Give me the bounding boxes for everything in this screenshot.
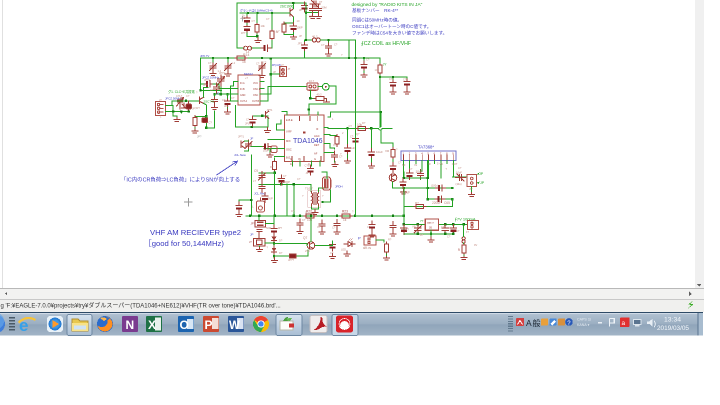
wire: Q7 links [311,216,333,246]
Acrobat icon [310,316,327,333]
wire: mixer out column [235,105,268,127]
mail soft button (active) [276,315,302,336]
coil L2 shielded [256,198,264,212]
LED D2 [344,239,355,247]
node: junction JY [379,76,381,78]
CAPS/KANA indicator [577,318,592,328]
capacitor C43 polarized [404,78,410,88]
ceramic filter FL1 [307,83,318,90]
svg-text:C?: C? [317,225,321,229]
svg-text:1k: 1k [343,218,347,222]
svg-text:2SC1906: 2SC1906 [280,5,294,9]
node: junction mid rail [354,57,356,59]
Excel icon [146,316,162,332]
svg-text:MIX: MIX [286,139,291,143]
svg-text:JP: JP [250,233,253,237]
svg-text:A: A [526,318,532,328]
wire: Q1 emitter column [204,103,207,116]
firefox icon [97,316,113,332]
capacitor C66 trimmer [456,174,466,181]
trimmer L3 quad coil [259,172,266,182]
resistor R13b [270,29,274,41]
svg-text:C?: C? [458,166,462,170]
component value micro labels [160,6,477,256]
wire: rail to JY column [364,58,380,62]
svg-text:O: O [180,318,189,332]
ground (quad) [267,152,273,157]
node: emitter bottom junction [205,127,207,129]
resistor R22 inline rail [304,214,316,218]
wire: ground row [166,105,189,116]
svg-text:10uF: 10uF [416,170,423,174]
capacitor C53b [315,5,321,15]
IME toolbar icons [541,319,548,326]
svg-text:C?: C? [208,61,212,65]
ground (C60) [368,163,374,168]
wire: U3 pin stubs down [404,161,454,179]
svg-text:グ1. CLC+E共振電: グ1. CLC+E共振電 [168,89,195,94]
node: junction top pin [308,108,310,110]
wire: L7 right drop [323,190,331,202]
wire: JY branch right [380,76,406,78]
svg-text:IN: IN [415,163,418,167]
capacitor C5 [213,83,219,93]
svg-text:R?: R? [415,201,419,205]
ground (C58) [225,71,231,76]
crystal X3 overtone trimmer [310,1,320,8]
svg-text:C?: C? [409,167,413,171]
connector J1 antenna (3 pin) [156,101,166,115]
svg-text:C?: C? [222,98,226,102]
explorer folder button (active) [67,315,92,336]
svg-text:50M: 50M [322,6,327,10]
ground (regulator) [428,237,434,242]
node: xtal branch junction [305,11,307,13]
svg-text:10uF: 10uF [376,150,383,154]
resistor R31 volume [391,147,395,159]
canvas left frame line [2,0,3,288]
svg-text:C?: C? [456,229,460,233]
wire: out to speaker row [452,176,467,178]
svg-text:C?: C? [209,121,213,125]
U2 pin labels [240,82,261,103]
node: left drop junction [199,89,201,91]
svg-text:JP?1: JP?1 [267,108,273,112]
node: junction volume [370,127,372,129]
wire: quad row lower [259,184,311,215]
capacitor C50 polarized [244,15,250,25]
node: Q7 rail junction [310,215,312,217]
wire: U2 right pin stubs [260,82,264,101]
wire: quad row upper [259,173,275,216]
svg-text:OSC1はオーバートーン時のC値です。: OSC1はオーバートーン時のC値です。 [352,23,431,30]
svg-text:a: a [622,320,626,327]
capacitor C54 polarized [290,23,296,33]
wire: X2 link [265,242,274,244]
svg-text:C?: C? [389,77,393,81]
svg-text:JP?1: JP?1 [204,78,210,82]
svg-text:X?: X? [319,0,323,4]
connector J4 power [364,236,376,245]
wire: J2 stub [271,73,280,75]
ground (front-end) [174,117,180,122]
svg-text:C?: C? [321,43,325,47]
capacitor C2 box [202,118,208,123]
capacitor C22 [211,96,217,106]
svg-text:100P: 100P [263,149,269,153]
status bar background [0,299,704,312]
trimmer C59 [259,62,266,72]
wire: varactor column [273,216,275,258]
svg-text:C?: C? [333,143,337,147]
svg-text:VR: VR [412,225,416,229]
wire: U2 pin1-pin5 bracket [231,82,234,101]
svg-text:W: W [229,320,240,332]
svg-text:KANA ▾: KANA ▾ [577,323,590,327]
svg-text:(10u): (10u) [456,182,462,186]
wire: U1 pin2 volume row [328,127,392,129]
svg-text:C?: C? [398,161,402,165]
coil L2 shielded box [271,146,277,152]
capacitor C21 polarized [204,81,214,87]
svg-text:C?: C? [406,228,410,232]
ground (C73) [334,229,340,234]
svg-text:1.4: 1.4 [218,69,222,73]
svg-text:C?: C? [252,19,256,23]
capacitor C39 polarized [307,165,313,175]
svg-text:C?: C? [334,43,338,47]
svg-text:1uF: 1uF [351,146,356,150]
wire: U1 left pin stubs [264,130,285,157]
ground (Q6) [401,189,407,194]
coil L4 [244,46,252,50]
wire: X1 links [259,216,274,224]
node: row junctions [220,93,222,95]
wire: osc riser column [264,59,271,95]
node: audio junctions [403,177,405,179]
svg-text:2019/03/05: 2019/03/05 [657,325,689,332]
ground (C76) [330,254,336,259]
node: junction C42 [392,76,394,78]
wire: regulator input row [404,223,468,225]
wire: to mixer gnd row [206,111,214,128]
capacitor C53a [309,5,315,15]
svg-text:10uF: 10uF [456,171,462,175]
ground (C75) [390,231,396,236]
capacitor C75 [390,222,396,232]
test point TP1 (green circle) [322,83,329,90]
svg-text:2SC741: 2SC741 [204,99,215,103]
svg-text:C?u?: C?u? [305,164,312,168]
svg-text:G: G [314,157,316,161]
wire: NF row [393,182,453,188]
regulator U4 78L05 [425,219,438,230]
svg-text:10.7: 10.7 [309,79,315,83]
connector J2 [280,67,287,77]
svg-text:IN: IN [298,157,301,161]
svg-text:L4: L4 [246,50,250,54]
wire: T1 secondary drop [286,184,288,216]
svg-text:C?: C? [246,118,250,122]
svg-text:1k: 1k [242,60,246,64]
node: junction buffer row [305,39,307,41]
svg-text:IN.A: IN.A [240,82,245,85]
wire: antenna feed [166,101,177,106]
svg-text:100P: 100P [283,180,290,184]
svg-text:C?: C? [283,174,287,178]
horizontal scrollbar right arrow [689,292,692,297]
ground (C57) [210,71,216,76]
svg-text:TA7368*: TA7368* [418,145,434,150]
svg-text:V.RF: V.RF [286,130,292,134]
wire: pin AGC elbow to R15 [330,135,337,137]
svg-text:LED: LED [341,248,346,252]
wire: U1 bottom pin stubs [292,161,319,166]
trimmer R28 [414,224,421,234]
svg-text:X: X [148,318,156,332]
wire: det coil up [322,172,327,179]
wire: pin DET elbow [330,144,335,150]
transistor Q6 [389,174,397,182]
trimmer C33 quad [245,140,252,150]
svg-text:C?: C? [291,209,295,213]
capacitor C71 [297,219,303,229]
svg-text:R?: R? [388,238,392,242]
svg-text:般: 般 [533,318,541,328]
OneNote icon [122,316,138,332]
svg-text:JP??: JP?? [288,258,294,262]
svg-text:56P: 56P [268,197,273,201]
svg-text:C?: C? [367,225,371,229]
ground (emitter) [291,34,297,39]
svg-text:JP(?): JP(?) [245,122,251,126]
svg-text:JP?: JP? [241,31,246,35]
wire: C58 branch column [347,128,349,145]
wire: switch row [376,240,384,242]
ground (emitter row) [192,128,198,133]
svg-text:C?: C? [302,218,306,222]
wire: oscillator loop bottom [237,47,272,49]
svg-text:P: P [358,236,361,241]
capacitor C77 [236,202,242,212]
svg-text:「IC内のCR負荷⇒LC負荷」によりSNが向上する: 「IC内のCR負荷⇒LC負荷」によりSNが向上する [121,176,240,184]
wire: U1 top pin elbows [282,108,318,115]
node: base row junction [185,100,187,102]
capacitor C61 [390,163,396,173]
avast tray icon [620,318,630,328]
node: ground row junctions [172,110,174,112]
ground (filter row) [324,99,330,104]
capacitor C56b [325,42,331,52]
resistor R21 [378,63,382,75]
svg-text:9V: 9V [474,243,477,247]
svg-text:Q?: Q? [356,132,360,136]
capacitor C76 polarized [329,241,335,251]
svg-text:C?: C? [297,177,301,181]
wire: quad links [245,141,272,152]
svg-text:C?: C? [403,78,407,82]
node: rail junctions [249,215,251,217]
node: mixer out junctions [251,126,253,128]
wire: gnd row y94 [215,93,239,95]
speaker tray icon [647,319,655,327]
ground (C41) [361,72,367,77]
trimmer C57 [210,62,217,72]
svg-text:OUT.A: OUT.A [240,100,247,103]
capacitor C80 polarized [450,224,456,234]
ground (speaker) [469,192,475,197]
op-amp U3 TA7368 box [401,151,456,161]
coil L5 [312,38,320,42]
svg-text:1.4: 1.4 [232,61,236,65]
crystal X1 [255,221,266,227]
ground (C53b) [316,14,322,19]
svg-text:C?: C? [332,226,336,230]
connector BAT [467,221,478,230]
capacitor C23 polarized [224,98,230,108]
svg-text:C?: C? [447,235,451,239]
capacitor C79 [442,224,448,234]
svg-text:R?: R? [420,233,424,237]
wire: oscillator inner rail [240,12,283,14]
node: varactor junctions [273,242,275,244]
wire: rail into regulator column [403,207,405,234]
capacitor C41 polarized [361,61,367,71]
wire: out row [428,198,453,200]
svg-text:AF: AF [314,152,318,156]
U3 pin numbers [403,152,455,156]
capacitor C31 polarized [352,135,358,145]
coil L7 det shielded [323,177,331,190]
transformer T1 [308,191,321,208]
svg-text:D?: D? [279,239,283,243]
U1 pin labels and ticks [286,118,320,161]
svg-text:7?: 7? [420,219,424,223]
Outlook icon [178,316,194,332]
ground (varactor chain) [272,258,278,263]
svg-text:(100u): (100u) [431,184,439,188]
transistor Q5 2SC1906 [290,9,293,17]
action center flag [610,319,615,327]
node: rail junctions [212,57,214,59]
wire: tune row [274,250,308,256]
wire: emitter row [195,116,207,128]
capacitor C74 polarized [369,221,375,231]
resistor R2 [193,116,197,128]
canvas bottom border [0,288,704,289]
svg-text:Q7: Q7 [303,236,307,240]
svg-text:CAPS ◲: CAPS ◲ [577,318,592,322]
svg-text:NE612: NE612 [244,72,254,76]
svg-text:C?L?: C?L? [176,94,183,98]
capacitor C37 polarized [262,193,268,203]
origin cross (module, gray) [240,17,244,22]
svg-text:220uF: 220uF [432,201,441,205]
ground (R11 row) [255,37,261,42]
wire: mixer out to filter [260,87,307,101]
wire: xtal branch [306,3,319,13]
svg-text:IN.B: IN.B [240,88,245,91]
capacitor C72 [319,220,325,230]
svg-text:C?: C? [256,62,260,66]
capacitor C55 polarized [261,45,271,51]
capacitor C73 [334,220,340,230]
pin2 wire start [327,127,329,130]
svg-text:9: 9 [458,248,460,252]
svg-text:JP?: JP? [203,83,208,87]
svg-text:C?: C? [186,94,190,98]
resistor R15 [335,134,339,146]
Word icon [228,316,244,332]
wire: U1 pin1 feed across top [328,112,381,117]
svg-text:C?: C? [441,225,445,229]
svg-text:C?: C? [266,17,270,21]
ground (R25) [461,255,467,260]
op-amp U1 TDA1046 box [285,115,325,162]
svg-text:JP: JP [273,70,276,74]
resistor R16 [273,160,277,172]
ground (C59) [259,73,265,78]
ground (C71) [297,229,303,234]
transistor Q1 rf amp [200,97,204,104]
svg-text:JF: JF [250,137,253,141]
svg-text:JCL.New: JCL.New [234,153,247,157]
capacitor C42 polarized [390,79,396,89]
svg-text:40.2: 40.2 [312,35,318,39]
wire: oscillator frame top [237,3,306,48]
wire: T1 right to det coil [319,182,328,191]
resistor R26 [385,242,389,254]
ground (C74) [369,232,375,237]
svg-text:JP?1: JP?1 [238,135,244,139]
svg-text:OUT: OUT [452,162,458,166]
resistor R32 inline [414,205,426,209]
svg-text:JPDH: JPDH [335,185,343,189]
ground (C43) [404,89,410,94]
capacitor C63 [417,170,423,180]
capacitor C1 box [186,101,192,112]
wire: U2 left pin stubs [215,82,239,101]
svg-text:JP?: JP? [197,135,202,139]
svg-text:［good for 50,144MHz): ［good for 50,144MHz) [144,239,224,248]
svg-text:∮CZ COIL as HF/VHF: ∮CZ COIL as HF/VHF [361,41,411,47]
resistor R5 inline [314,96,326,100]
crystal X2 [254,238,265,246]
PowerPoint icon [203,316,219,332]
label 78L05 [427,221,434,230]
svg-text:C?: C? [210,88,214,92]
U3 pin net labels [402,162,458,167]
svg-text:OUT.B: OUT.B [252,100,259,103]
wire: rail left drop [201,58,222,90]
svg-text:C?: C? [231,96,235,100]
node: junction L5 line [327,39,329,41]
resistor R14 inline [235,56,247,60]
ground (C42) [390,89,396,94]
wire: filter to U1 input column [309,86,336,108]
svg-text:C9: C9 [254,169,258,173]
svg-text:AGC: AGC [314,134,320,138]
connector SP1 speaker [467,175,477,187]
start orb sliver [0,315,5,333]
wire: audio supply drop to rail [349,40,356,216]
svg-text:13:34: 13:34 [664,317,681,324]
diode D1 inline [290,254,296,258]
svg-text:同調Cは50MHz時の値。: 同調Cは50MHz時の値。 [352,17,402,24]
svg-text:C?: C? [309,15,313,19]
node: L7 drop junction [321,201,323,203]
ground (Q4) [264,128,270,133]
